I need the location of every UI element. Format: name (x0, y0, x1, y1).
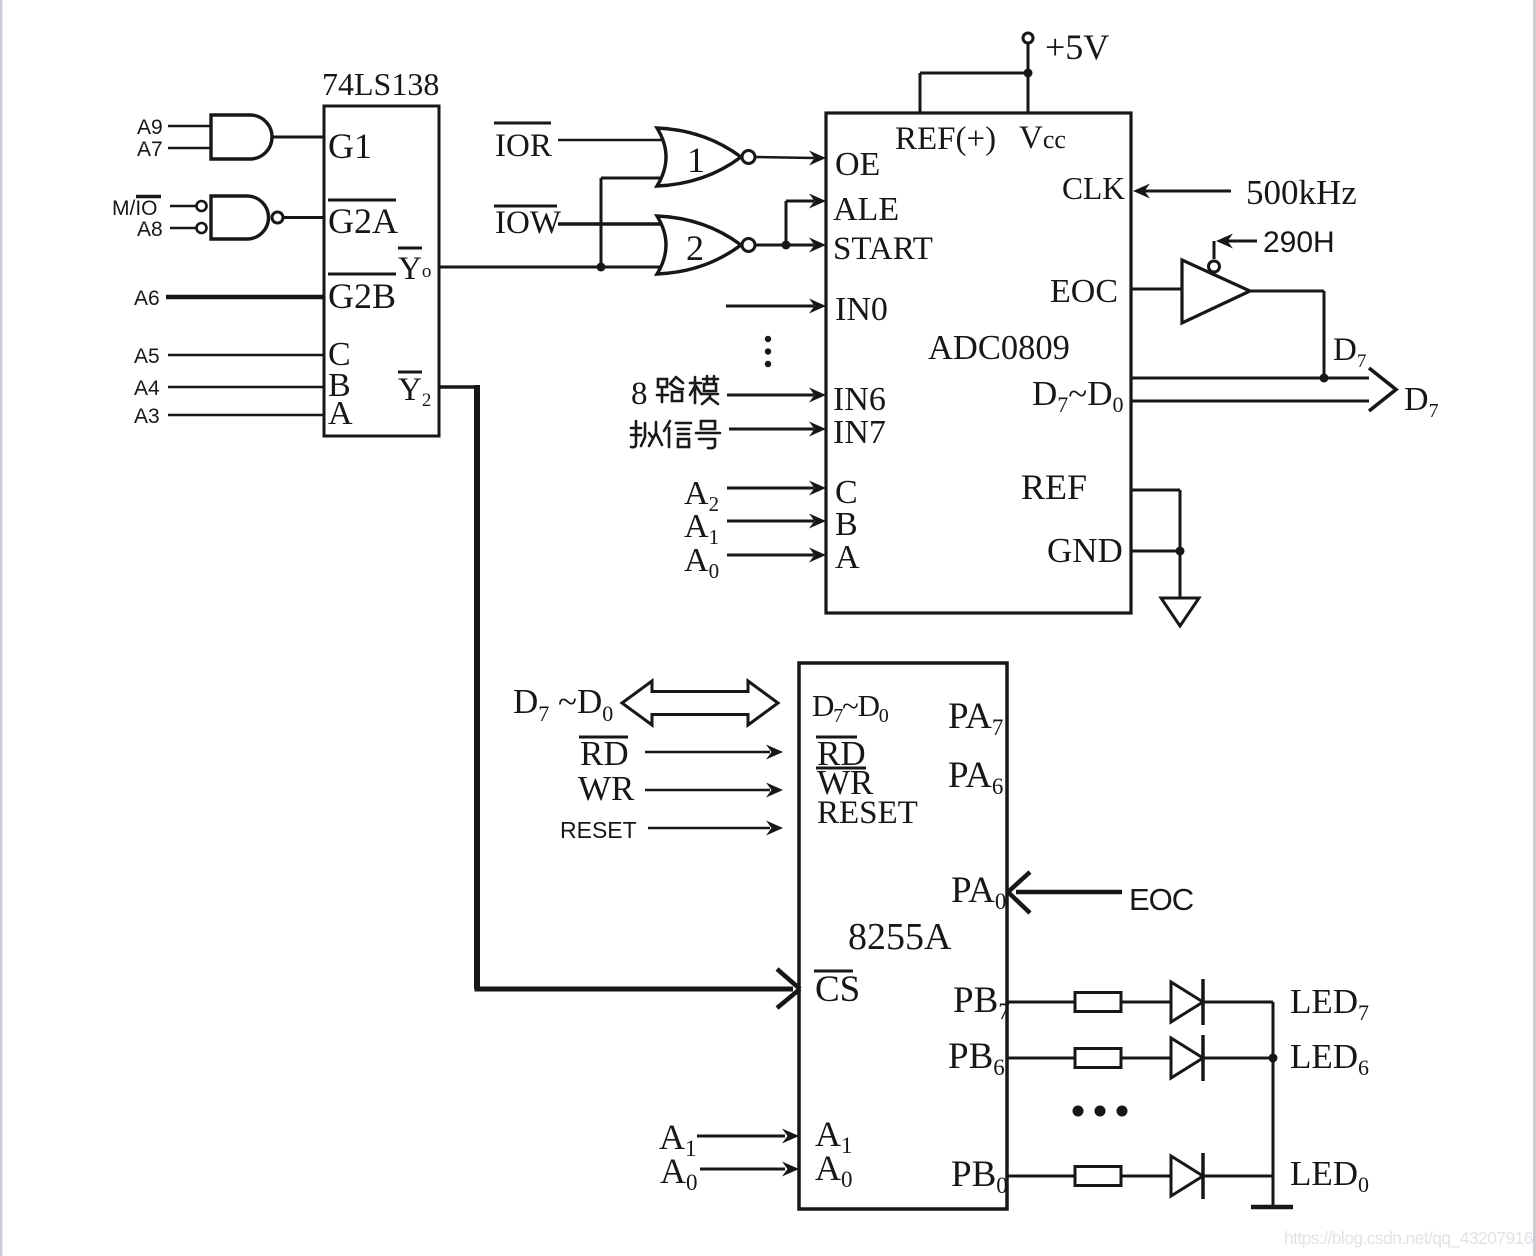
svg-text:500kHz: 500kHz (1246, 173, 1357, 212)
svg-text:Vcc: Vcc (1019, 120, 1066, 156)
svg-text:REF(+): REF(+) (895, 121, 996, 157)
svg-text:REF: REF (1021, 467, 1087, 507)
svg-text:B: B (835, 506, 858, 543)
svg-text:8255A: 8255A (848, 916, 952, 958)
svg-text:A: A (328, 395, 353, 432)
svg-text:A8: A8 (137, 218, 163, 241)
svg-text:IN7: IN7 (833, 414, 886, 451)
svg-text:GND: GND (1047, 531, 1123, 570)
svg-text:290H: 290H (1263, 226, 1335, 259)
svg-text:G2A: G2A (328, 201, 398, 241)
svg-text:G1: G1 (328, 126, 372, 166)
svg-text:CS: CS (815, 969, 860, 1010)
svg-text:IN0: IN0 (835, 291, 888, 328)
svg-text:LED6: LED6 (1290, 1037, 1369, 1080)
svg-text:RD: RD (580, 734, 629, 773)
svg-text:RESET: RESET (560, 817, 637, 843)
svg-text:LED7: LED7 (1290, 982, 1369, 1025)
svg-text:A3: A3 (134, 405, 160, 428)
svg-text:START: START (833, 231, 933, 267)
svg-text:https://blog.csdn.net/qq_43207: https://blog.csdn.net/qq_43207916 (1284, 1228, 1533, 1249)
svg-text:+5V: +5V (1045, 27, 1109, 67)
svg-text:ADC0809: ADC0809 (928, 329, 1070, 367)
svg-text:ALE: ALE (833, 191, 899, 228)
svg-text:RESET: RESET (817, 795, 918, 831)
svg-text:IN6: IN6 (833, 381, 886, 418)
svg-text:A7: A7 (137, 138, 163, 161)
svg-text:D7~D0: D7~D0 (1032, 374, 1124, 417)
svg-text:CLK: CLK (1062, 171, 1125, 206)
svg-text:WR: WR (578, 769, 635, 808)
svg-text:M/IO: M/IO (112, 197, 158, 220)
svg-text:G2B: G2B (328, 276, 396, 316)
svg-text:EOC: EOC (1129, 882, 1194, 917)
svg-text:OE: OE (835, 146, 880, 183)
svg-text:A: A (835, 539, 860, 576)
svg-text:2: 2 (686, 228, 704, 268)
svg-text:D7 ~D0: D7 ~D0 (513, 682, 613, 726)
svg-text:A9: A9 (137, 116, 163, 139)
svg-text:8: 8 (631, 376, 648, 412)
svg-text:EOC: EOC (1050, 273, 1118, 310)
svg-text:D7~D0: D7~D0 (812, 688, 889, 727)
svg-text:LED0: LED0 (1290, 1154, 1369, 1197)
svg-text:1: 1 (687, 140, 705, 180)
svg-text:IOW: IOW (495, 205, 562, 241)
svg-text:A4: A4 (134, 377, 160, 400)
svg-text:74LS138: 74LS138 (322, 66, 439, 102)
svg-text:A5: A5 (134, 345, 160, 368)
svg-text:IOR: IOR (495, 128, 552, 164)
svg-text:A6: A6 (134, 287, 160, 310)
